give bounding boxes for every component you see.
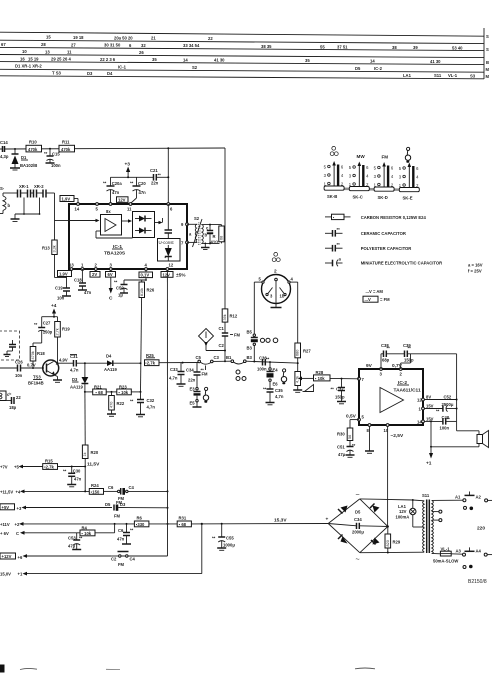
svg-text:B3: B3	[247, 346, 253, 351]
svg-text:22 2 3 6: 22 2 3 6	[100, 57, 116, 62]
speaker	[477, 431, 489, 448]
svg-text:E5: E5	[190, 401, 196, 406]
music clef icon near E4	[281, 369, 286, 385]
wire SK-A pin4 down to R27	[297, 282, 299, 343]
svg-text:150p: 150p	[404, 358, 414, 363]
resistor R29 (vertical)	[385, 527, 401, 553]
phono icon right of B5	[260, 338, 277, 343]
svg-text:68p: 68p	[382, 358, 390, 363]
svg-text:47n: 47n	[139, 190, 147, 195]
switch contact E4-E6	[267, 362, 279, 388]
svg-text:39: 39	[413, 45, 418, 50]
legend ceramic capacitor	[325, 227, 406, 237]
svg-text:2V: 2V	[92, 272, 97, 277]
diode D3 AA119	[70, 363, 88, 392]
layout strip row 2 numbers	[1, 42, 463, 50]
svg-text:680: 680	[296, 350, 300, 356]
svg-text:S: S	[486, 47, 489, 52]
potentiometer R28 10k (volume)	[293, 372, 302, 393]
svg-text:D5: D5	[355, 510, 361, 515]
svg-text:BF194B: BF194B	[28, 381, 44, 386]
svg-text:FM: FM	[234, 333, 241, 338]
svg-text:R11: R11	[62, 140, 70, 145]
resistor R27 680 (vertical)	[295, 343, 311, 372]
svg-text:B: B	[486, 60, 489, 65]
resistor R26 (vertical)	[139, 279, 155, 297]
resistor R21 68	[84, 384, 106, 395]
capacitor C20 47n	[130, 177, 146, 203]
capacitor C38 68p feedback	[381, 343, 390, 369]
svg-text:S11: S11	[434, 73, 442, 78]
wire AM line from C14 to corner	[5, 148, 226, 150]
phono icon near B1-B3 contact	[236, 370, 246, 381]
svg-text:+6: +6	[18, 555, 23, 560]
svg-text:19 18: 19 18	[73, 35, 84, 40]
svg-text:15V: 15V	[426, 404, 434, 409]
IC-1 top pin 6	[167, 203, 173, 212]
svg-text:**: **	[158, 173, 162, 178]
svg-text:68: 68	[220, 236, 224, 240]
svg-text:TS3: TS3	[33, 375, 41, 380]
switch contact B1-B3 on bus	[226, 355, 297, 364]
svg-text:XR-2: XR-2	[34, 184, 44, 189]
trimmer capacitor inside FM box	[4, 340, 17, 357]
supply arrow +4	[51, 303, 57, 317]
svg-text:R27: R27	[303, 349, 311, 354]
IC-1 demodulator diodes box	[133, 212, 155, 238]
svg-text:M: M	[486, 67, 490, 72]
svg-text:**: **	[387, 346, 391, 351]
svg-text:13: 13	[69, 263, 74, 268]
capacitor C21 22n	[150, 168, 161, 186]
svg-text:= FM: = FM	[380, 297, 390, 302]
transistor TS3 BF194B	[27, 360, 59, 386]
svg-text:R26: R26	[147, 288, 155, 293]
resistor R25 3.9k (in bus)	[145, 353, 200, 366]
svg-text:28: 28	[41, 42, 46, 47]
svg-text:33 34 54: 33 34 54	[183, 43, 200, 48]
svg-text:47n: 47n	[112, 190, 120, 195]
diode bridge D5	[326, 492, 388, 564]
supply rail arrow +6 (+12V row boxed)	[0, 553, 112, 560]
ground under S2	[201, 243, 210, 250]
IC-1 bottom pin 12	[166, 263, 174, 271]
svg-text:...V: ...V	[365, 297, 371, 302]
supply rail arrow C (+6V row)	[0, 531, 80, 536]
capacitor C35 4.7n	[263, 387, 284, 405]
svg-text:12V: 12V	[118, 197, 126, 202]
svg-text:**: **	[436, 409, 440, 414]
svg-text:**: **	[337, 227, 341, 232]
svg-text:E6: E6	[273, 382, 279, 387]
node label 11.5V	[87, 462, 100, 468]
svg-text:▪150: ▪150	[91, 489, 100, 494]
wire R20 rail up to R21 row	[84, 392, 86, 443]
svg-text:41Ω: 41Ω	[211, 240, 219, 245]
resistor R10 470k	[26, 140, 42, 152]
svg-text:2000μ: 2000μ	[352, 530, 364, 535]
transformer primary taps	[432, 510, 442, 521]
svg-text:R30: R30	[337, 432, 345, 437]
switch SK-E	[399, 163, 420, 201]
FM coil stub (left edge lower)	[0, 391, 21, 410]
svg-text:+ 6V: + 6V	[0, 531, 9, 536]
svg-text:32: 32	[141, 43, 146, 48]
capacitor C50 1µ	[114, 278, 146, 298]
resistor R22 (vertical)	[107, 392, 125, 416]
wire SK-A pin5 down to B5	[253, 282, 255, 334]
svg-text:**: **	[212, 536, 216, 541]
svg-text:15V: 15V	[426, 417, 434, 422]
rotary switch SK-A circle	[254, 269, 297, 304]
svg-text:12: 12	[169, 263, 174, 268]
IC-2 pin 8	[367, 424, 371, 433]
svg-text:+2: +2	[15, 522, 20, 527]
svg-text:+5V: +5V	[2, 505, 10, 510]
svg-text:15: 15	[46, 35, 51, 40]
svg-text:D1 XR-1 XR-2: D1 XR-1 XR-2	[15, 64, 42, 69]
svg-text:R20: R20	[91, 450, 99, 455]
svg-text:C6: C6	[108, 485, 114, 490]
svg-text:MINIATURE ELECTROLYTIC CAPAC: MINIATURE ELECTROLYTIC CAPACITOR	[361, 261, 443, 266]
varicap diode D1 BA102/B	[12, 149, 38, 168]
svg-text:41 30: 41 30	[430, 59, 441, 64]
resistor R12 (vertical, on rail)	[222, 309, 238, 322]
svg-text:100n: 100n	[440, 426, 450, 431]
svg-text:35: 35	[152, 57, 157, 62]
svg-text:+3: +3	[125, 162, 131, 168]
svg-text:C35: C35	[275, 388, 283, 393]
svg-text:810k: 810k	[140, 288, 144, 296]
svg-text:SK-C: SK-C	[353, 194, 363, 199]
capacitor C27 150p	[34, 317, 53, 343]
switch SK-C	[349, 162, 370, 200]
svg-text:50mA-SLOW: 50mA-SLOW	[433, 559, 458, 564]
svg-text:FM: FM	[382, 155, 389, 160]
svg-text:D5: D5	[355, 66, 361, 71]
svg-text:47n: 47n	[74, 477, 82, 482]
svg-text:0,1V: 0,1V	[141, 273, 150, 278]
svg-text:**: **	[103, 181, 107, 186]
svg-text:**: **	[447, 417, 451, 422]
schematic id B2150/8	[468, 579, 487, 585]
svg-text:**: **	[44, 151, 48, 156]
voltage label 9V pin3	[366, 363, 373, 369]
svg-text:+4: +4	[16, 490, 21, 495]
svg-text:220: 220	[477, 526, 485, 532]
IC-1 top pin 5	[96, 203, 99, 212]
resistor R13 (vertical)	[42, 221, 66, 278]
svg-text:41 30: 41 30	[214, 58, 225, 63]
resistor R 41 ohm (S2 damping)	[211, 225, 225, 245]
ground under pin 1	[81, 269, 83, 283]
phono icon above SK-B	[330, 146, 338, 155]
wire C26 to TS3 base	[21, 367, 45, 369]
svg-text:C: C	[109, 296, 113, 302]
svg-text:150p: 150p	[43, 330, 53, 335]
voltage label 2V (pin 2)	[90, 270, 100, 277]
svg-text:R13: R13	[42, 246, 50, 251]
svg-text:D4: D4	[107, 71, 113, 76]
mains switch A3-A4	[456, 547, 492, 568]
svg-text:4,7k: 4,7k	[296, 376, 300, 383]
supply arrow +1 (down)	[426, 453, 433, 467]
bridge diode bottom-right	[371, 538, 380, 545]
svg-text:C5: C5	[196, 355, 202, 360]
ground below D1	[10, 168, 20, 170]
layout strip row 3 numbers	[22, 49, 144, 55]
zener U-const box	[158, 239, 181, 262]
12V rail from IC-1 pin 12 down	[166, 270, 168, 556]
ground XR filters	[11, 214, 20, 222]
R28 wiper arrow and label box	[298, 370, 330, 381]
mains switch A1-A2	[455, 492, 492, 511]
svg-text:**: **	[63, 469, 67, 474]
svg-text:...V = AM: ...V = AM	[366, 289, 384, 294]
wire top rail to R19 and +4	[42, 316, 58, 318]
svg-text:**: **	[201, 368, 205, 373]
IC-2 pin 2 (top)	[399, 368, 402, 377]
svg-text:A1: A1	[455, 494, 461, 499]
supply rail arrow +1 (15.0V row)	[0, 572, 202, 577]
IC-2 pin 10	[384, 424, 390, 433]
layout strip row 5 labels	[15, 64, 383, 71]
supply arrow +3	[125, 162, 131, 178]
supply rail arrow +5 (+7V row)	[0, 464, 43, 469]
IC-1 bottom pin 1	[81, 263, 84, 271]
bridge diode top-left	[338, 506, 348, 514]
svg-text:35: 35	[305, 58, 310, 63]
svg-text:B1: B1	[226, 355, 232, 360]
IC-2 pin 5	[358, 415, 365, 422]
svg-text:470: 470	[110, 402, 114, 408]
IC-1 bottom pin 4	[145, 263, 148, 271]
capacitor c (S2 tuning)	[206, 225, 213, 244]
svg-text:IC-1: IC-1	[118, 64, 127, 69]
voltage label 1.9V (pin 14)	[60, 196, 78, 205]
svg-text:67: 67	[1, 42, 6, 47]
svg-text:R24: R24	[91, 483, 99, 488]
music clef icon near E3	[203, 387, 208, 403]
svg-text:+1: +1	[18, 572, 23, 577]
svg-text:4,7n: 4,7n	[147, 405, 156, 410]
svg-text:8x: 8x	[106, 209, 111, 214]
resistor R18 470k (vertical)	[30, 343, 45, 368]
resistor R11 470k	[59, 140, 75, 152]
IC-2 pin 14	[417, 420, 424, 425]
resistor R19 2.7k (vertical)	[55, 317, 71, 364]
op-amp IC-1 TBA120S box	[69, 204, 187, 269]
svg-text:▪ 10k: ▪ 10k	[119, 390, 129, 395]
svg-text:+4: +4	[51, 303, 57, 309]
svg-text:a = 16V: a = 16V	[468, 263, 483, 268]
svg-text:15,3V: 15,3V	[274, 518, 287, 524]
wire pin 5 to R30	[350, 420, 359, 428]
svg-text:S2: S2	[194, 216, 200, 221]
svg-text:11,5V: 11,5V	[87, 462, 100, 468]
svg-text:SK-E: SK-E	[403, 195, 413, 200]
svg-text:−2,5V: −2,5V	[391, 433, 404, 439]
svg-text:C27: C27	[43, 321, 51, 326]
svg-text:C30: C30	[73, 469, 81, 474]
svg-text:D1: D1	[21, 155, 27, 160]
svg-text:470k: 470k	[61, 147, 71, 152]
switch contact B5-B3	[247, 330, 258, 362]
wire primary top to switch A1	[432, 499, 463, 501]
capacitor C32 4.7n	[130, 392, 155, 417]
svg-text:C51: C51	[337, 445, 345, 450]
svg-text:C18: C18	[74, 278, 82, 283]
svg-text:6V: 6V	[108, 272, 113, 277]
svg-text:C: C	[16, 531, 19, 536]
capacitor C40 100n	[424, 415, 456, 431]
svg-text:**: **	[408, 346, 412, 351]
svg-text:S: S	[486, 34, 489, 39]
svg-text:4,7n: 4,7n	[70, 368, 79, 373]
svg-text:10n: 10n	[15, 373, 23, 378]
svg-text:37 51: 37 51	[337, 44, 348, 49]
svg-text:**: **	[331, 387, 335, 392]
switch SK-B	[324, 161, 345, 199]
voltage label 0.5V pin5	[346, 414, 357, 420]
svg-text:150p: 150p	[335, 395, 345, 400]
svg-text:S3: S3	[470, 73, 476, 78]
capacitor C19 10n	[55, 277, 71, 301]
capacitor C39 150p feedback	[386, 343, 456, 422]
svg-text:R6: R6	[137, 516, 143, 521]
svg-text:▪ 10k: ▪ 10k	[82, 531, 92, 536]
capacitor C55 1000µ	[212, 524, 235, 551]
svg-text:4,7n: 4,7n	[275, 394, 284, 399]
svg-text:47n: 47n	[117, 537, 125, 542]
bottom-left page marks	[0, 665, 375, 673]
wire speaker return to +1	[430, 421, 479, 453]
ceramic filter XR-1	[3, 184, 31, 214]
svg-text:R19: R19	[62, 327, 70, 332]
svg-text:C20: C20	[138, 181, 146, 186]
svg-text:▪ 68: ▪ 68	[179, 522, 187, 527]
svg-text:39k: 39k	[223, 314, 227, 320]
svg-text:2: 2	[274, 269, 277, 275]
svg-text:18p: 18p	[9, 405, 17, 410]
capacitor C26 10n	[0, 360, 23, 379]
wire amp to diode box arrow	[96, 219, 133, 238]
svg-text:15,0V: 15,0V	[0, 572, 11, 577]
svg-text:0,7V: 0,7V	[27, 363, 36, 368]
legend miniature electrolytic capacitor	[325, 257, 483, 274]
transformer S2	[187, 216, 220, 247]
svg-text:13: 13	[45, 49, 50, 54]
svg-text:D3: D3	[120, 502, 126, 507]
svg-text:AA119: AA119	[104, 367, 117, 372]
svg-text:R10: R10	[29, 140, 37, 145]
svg-text:B5: B5	[247, 330, 253, 335]
bridge diode bottom-left	[338, 535, 348, 544]
svg-text:+11V: +11V	[0, 522, 10, 527]
svg-text:12: 12	[417, 398, 422, 403]
svg-text:~: ~	[356, 492, 360, 499]
svg-text:A2: A2	[476, 494, 482, 499]
capacitor C31 4.7n	[70, 354, 107, 373]
wire branch +3 / C21 row	[111, 148, 170, 204]
svg-text:▪2,7k: ▪2,7k	[145, 361, 155, 366]
svg-text:M: M	[486, 74, 490, 79]
svg-text:12V: 12V	[163, 272, 171, 277]
fuse VL-1	[432, 547, 463, 564]
svg-text:1,9V: 1,9V	[62, 196, 71, 201]
svg-text:14: 14	[417, 420, 422, 425]
label MW above SK-C	[357, 154, 366, 159]
svg-text:T S3: T S3	[52, 71, 62, 76]
IC-1 top pin 11	[127, 203, 132, 212]
svg-text:**: **	[337, 242, 341, 247]
svg-text:B2150/8: B2150/8	[468, 579, 487, 585]
svg-text:3,3k: 3,3k	[53, 245, 57, 252]
voltage label 12V ±5% (pin 12)	[161, 272, 186, 279]
capacitor C30 47n	[63, 467, 82, 487]
capacitor C34 22n	[186, 362, 204, 388]
antenna coil S1 (left edge)	[0, 186, 11, 214]
svg-text:IC-2: IC-2	[374, 66, 383, 71]
svg-text:▪2,7k: ▪2,7k	[44, 464, 54, 469]
svg-text:R31: R31	[179, 516, 187, 521]
label FM above SK-D	[382, 155, 389, 160]
svg-text:U-const: U-const	[159, 240, 175, 245]
layout strip row 6 labels	[52, 71, 476, 79]
svg-text:100mA: 100mA	[396, 515, 410, 520]
svg-text:SK-B: SK-B	[327, 194, 337, 199]
svg-text:C4: C4	[129, 485, 135, 490]
svg-text:2,7k: 2,7k	[56, 328, 60, 335]
svg-text:1µ: 1µ	[118, 293, 123, 298]
voltage label 12V (pin 11)	[117, 197, 129, 203]
node 4.9V collector	[56, 358, 74, 365]
internal supply line pin 6 to U-const with capacitor	[165, 204, 173, 239]
legend polyester capacitor	[325, 242, 411, 252]
svg-text:C3: C3	[214, 355, 220, 360]
capacitor C36 100n (in bus)	[257, 356, 270, 372]
svg-text:100n: 100n	[257, 367, 267, 372]
svg-text:f = 25V: f = 25V	[468, 269, 482, 274]
svg-text:+12V: +12V	[2, 554, 12, 559]
svg-text:8V: 8V	[426, 395, 431, 400]
wire XR common line	[15, 213, 40, 215]
supply arrow C under pin 3	[109, 277, 113, 301]
svg-text:D3: D3	[72, 377, 78, 382]
svg-text:**: **	[266, 357, 270, 362]
svg-text:38 35: 38 35	[261, 44, 272, 49]
svg-text:22: 22	[208, 36, 213, 41]
svg-text:14: 14	[75, 207, 80, 212]
IC-2 pin 7	[358, 377, 365, 382]
svg-text:S-: S-	[0, 186, 5, 191]
wiring layout strip lines	[0, 28, 484, 79]
svg-text:**: **	[34, 322, 38, 327]
svg-text:LA1: LA1	[403, 73, 412, 78]
svg-text:C19: C19	[55, 286, 63, 291]
switch contact C6-C4	[108, 485, 169, 501]
resistor R15 2.7k	[43, 458, 86, 469]
svg-text:D3: D3	[87, 71, 93, 76]
capacitor C53 47µ	[68, 533, 83, 550]
wire XR output to IC-1 input	[46, 193, 69, 221]
svg-text:20a 50 20: 20a 50 20	[114, 35, 133, 40]
svg-text:R25: R25	[146, 353, 154, 358]
wire diode box output arrow	[155, 218, 163, 224]
legend voltage AM	[366, 289, 384, 294]
svg-text:A3: A3	[456, 548, 462, 553]
capacitor C20a 47n	[103, 177, 122, 204]
